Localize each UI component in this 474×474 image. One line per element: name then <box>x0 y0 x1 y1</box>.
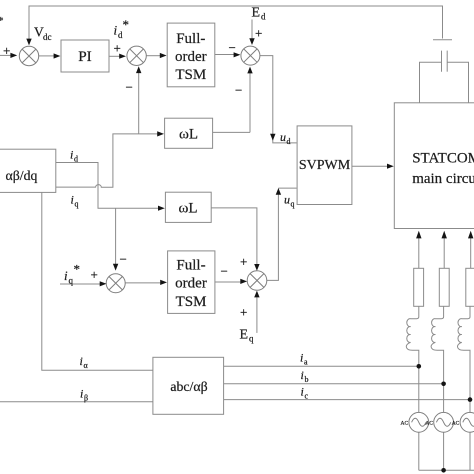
svg-text:E: E <box>252 6 261 21</box>
svg-text:d: d <box>287 137 291 146</box>
svg-text:−: − <box>120 252 127 267</box>
svg-text:α: α <box>84 361 89 370</box>
svg-text:Full-: Full- <box>176 258 205 274</box>
svg-text:d: d <box>261 12 266 22</box>
svg-text:u: u <box>280 130 286 144</box>
svg-text:u: u <box>284 193 290 207</box>
svg-text:+: + <box>240 254 247 269</box>
svg-text:SVPWM: SVPWM <box>299 158 351 173</box>
svg-text:STATCOM: STATCOM <box>412 151 474 167</box>
svg-text:β: β <box>84 394 88 403</box>
svg-text:q: q <box>69 276 74 286</box>
svg-text:i: i <box>114 23 118 38</box>
svg-text:order: order <box>175 275 207 291</box>
svg-text:b: b <box>305 375 309 384</box>
svg-text:−: − <box>235 83 242 98</box>
svg-text:*: * <box>0 15 4 27</box>
svg-text:+: + <box>91 267 98 282</box>
svg-text:i: i <box>301 368 304 382</box>
svg-text:PI: PI <box>78 48 92 65</box>
svg-text:TSM: TSM <box>175 67 206 83</box>
svg-text:i: i <box>80 387 83 401</box>
svg-text:c: c <box>305 392 309 401</box>
svg-text:ωL: ωL <box>178 201 197 217</box>
svg-text:ωL: ωL <box>179 127 198 143</box>
svg-text:Full-: Full- <box>176 31 205 47</box>
svg-text:q: q <box>75 200 79 209</box>
svg-text:+: + <box>3 43 10 58</box>
svg-text:i: i <box>300 351 303 365</box>
svg-text:main circuit: main circuit <box>412 171 474 187</box>
svg-text:abc/αβ: abc/αβ <box>170 379 207 394</box>
svg-text:q: q <box>291 200 295 209</box>
svg-text:dc: dc <box>43 32 52 42</box>
svg-text:*: * <box>123 17 130 32</box>
svg-text:*: * <box>74 262 81 277</box>
svg-text:i: i <box>71 193 74 207</box>
svg-text:−: − <box>229 40 236 55</box>
svg-text:a: a <box>304 358 308 367</box>
svg-text:order: order <box>175 49 207 65</box>
svg-text:d: d <box>74 155 78 164</box>
svg-text:+: + <box>114 41 121 56</box>
svg-text:αβ/dq: αβ/dq <box>6 168 38 183</box>
svg-text:q: q <box>249 334 254 344</box>
svg-text:AC: AC <box>425 421 433 427</box>
svg-text:+: + <box>255 26 262 41</box>
svg-text:E: E <box>240 328 249 343</box>
svg-text:i: i <box>301 385 304 399</box>
svg-text:i: i <box>80 354 83 368</box>
svg-text:TSM: TSM <box>176 294 207 310</box>
svg-text:i: i <box>70 148 73 162</box>
svg-text:+: + <box>240 305 247 320</box>
svg-text:−: − <box>126 80 133 95</box>
svg-text:AC: AC <box>452 421 460 427</box>
svg-text:−: − <box>221 264 228 279</box>
svg-text:i: i <box>64 268 68 283</box>
svg-text:AC: AC <box>401 421 409 427</box>
